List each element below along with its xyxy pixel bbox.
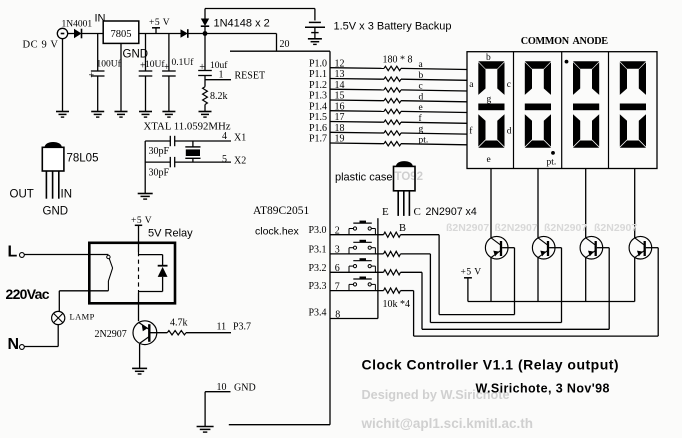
ground C2	[139, 112, 152, 118]
wire P1.4 to resistor	[330, 110, 384, 113]
svg-text:g: g	[487, 95, 492, 105]
label DC 9 V	[23, 40, 59, 51]
segment label c	[507, 80, 511, 90]
svg-text:E: E	[382, 206, 389, 218]
svg-text:GND: GND	[43, 206, 69, 218]
pin number 12	[335, 58, 345, 69]
pin P3.4 stub	[330, 318, 378, 320]
svg-text:0.1Uf: 0.1Uf	[172, 57, 195, 68]
terminal N	[8, 336, 25, 353]
svg-text:10k *4: 10k *4	[383, 299, 411, 310]
svg-text:C: C	[414, 206, 421, 218]
segment label e	[487, 155, 491, 165]
net label f	[419, 113, 423, 124]
label LAMP	[70, 312, 95, 322]
pin P3.4 label	[308, 308, 326, 319]
svg-text:ß2N2907: ß2N2907	[495, 222, 538, 234]
svg-text:RESET: RESET	[235, 71, 266, 82]
wire L to relay contact	[24, 254, 108, 256]
svg-text:P3.4: P3.4	[308, 308, 326, 319]
svg-text:wichit@apl1.sci.kmitl.ac.th: wichit@apl1.sci.kmitl.ac.th	[361, 416, 533, 431]
author W.Sirichote, 3 Nov 98	[476, 382, 610, 396]
regulator U2 7805	[103, 21, 139, 43]
net bus to P3.4	[377, 218, 379, 318]
pin number 17	[335, 112, 345, 123]
connector J1 DC 9V jack	[57, 28, 67, 38]
switch S1	[330, 221, 384, 235]
wire U2 output rail	[139, 33, 181, 35]
wire +5V emitter rail	[468, 301, 635, 303]
svg-text:c: c	[507, 80, 511, 90]
svg-text:5V Relay: 5V Relay	[148, 228, 193, 240]
wire resistor to display segment b	[401, 79, 467, 80]
ground battery	[308, 39, 322, 45]
svg-text:ß2N2907: ß2N2907	[544, 222, 587, 234]
svg-text:1: 1	[219, 70, 224, 81]
svg-text:30pF: 30pF	[149, 146, 170, 157]
wire resistor to display segment f	[401, 122, 467, 123]
resistor RP1.0 180	[384, 66, 401, 70]
svg-text:+5 V: +5 V	[131, 216, 152, 226]
svg-text:100Uf: 100Uf	[97, 59, 122, 70]
net label d	[419, 92, 424, 102]
svg-text:10Uf: 10Uf	[145, 59, 165, 70]
IC U1 AT89C2051 outline	[229, 51, 330, 425]
label 1N4001	[62, 19, 93, 29]
relay snubber diode D4	[139, 255, 168, 292]
pin 5 X2 labels	[222, 154, 246, 167]
display digit 1 segments	[478, 61, 504, 147]
crystal Y1	[185, 141, 200, 162]
svg-text:pt.: pt.	[547, 157, 557, 167]
segment label b	[486, 53, 491, 63]
wire Q5 emitter	[139, 344, 141, 368]
switch S4	[330, 277, 384, 291]
svg-text:P3.2: P3.2	[308, 263, 326, 274]
wire U2 GND lead	[120, 43, 122, 111]
label 1.5V x 3 Battery Backup	[334, 21, 452, 33]
watermark email	[361, 416, 533, 431]
svg-text:1.5V x 3 Battery Backup: 1.5V x 3 Battery Backup	[334, 21, 452, 33]
title Clock Controller	[362, 357, 620, 373]
wire resistor to display segment d	[401, 101, 467, 102]
label 2N2907 x4	[426, 206, 477, 218]
net label e	[419, 103, 423, 113]
wire R1 to ground	[204, 105, 206, 112]
label XTAL 11.0592MHz	[144, 121, 231, 133]
resistor RP1.5 180	[384, 120, 401, 124]
svg-text:g: g	[419, 125, 424, 135]
capacitor C1 100Uf	[89, 34, 122, 112]
pin number 8	[335, 309, 340, 320]
label 1N4148 x 2	[214, 18, 270, 30]
wire P1.1 to resistor	[330, 78, 384, 81]
display digit 2 segments	[525, 61, 551, 147]
pin P1.6 label	[309, 123, 327, 134]
label 2N2907	[95, 329, 127, 340]
svg-text:b: b	[486, 53, 491, 63]
wire Q3 emitter to +5V rail	[585, 258, 587, 302]
wire P1.3 to resistor	[330, 99, 384, 102]
display digit 3 segments	[573, 61, 599, 147]
wire P1.0 to resistor	[330, 67, 384, 70]
pin P1.1 label	[309, 69, 327, 80]
svg-text:d: d	[507, 127, 512, 137]
label GND of 7805	[123, 49, 149, 61]
label 10k *4	[383, 299, 411, 310]
ground C3	[162, 112, 175, 118]
wire resistor to drop 4	[401, 291, 414, 337]
svg-text:P1.6: P1.6	[309, 123, 327, 134]
svg-text:Clock Controller V1.1 (Relay o: Clock Controller V1.1 (Relay output)	[362, 357, 620, 373]
label B	[399, 223, 406, 234]
pin number 6	[335, 263, 340, 274]
wire Q1 emitter to +5V rail	[490, 258, 492, 302]
terminal L	[8, 244, 25, 261]
pin number 16	[335, 101, 345, 112]
svg-text:180 * 8: 180 * 8	[383, 55, 413, 66]
wire Q4 emitter to +5V rail	[634, 258, 636, 302]
resistor R 10k #2	[384, 251, 401, 256]
svg-text:8.2k: 8.2k	[210, 91, 228, 102]
svg-text:IN: IN	[61, 189, 73, 201]
decimal point digit2	[551, 151, 555, 155]
svg-text:X1: X1	[234, 133, 246, 144]
label plastic case	[335, 172, 392, 184]
segment label a	[469, 80, 474, 90]
svg-text:P3.3: P3.3	[308, 281, 326, 292]
segment label pt.	[547, 157, 557, 167]
pin number 18	[335, 123, 345, 134]
watermark 2N2907 #4	[594, 222, 637, 234]
pin P1.5 label	[309, 112, 327, 123]
svg-text:AT89C2051: AT89C2051	[253, 205, 309, 217]
wire contact to lamp branch	[59, 290, 108, 292]
wire VCC to pin 20	[205, 34, 277, 52]
svg-text:d: d	[419, 92, 424, 102]
pin 10 GND stub	[205, 391, 230, 393]
display DS1 outline	[467, 52, 657, 169]
label IN pin	[61, 189, 73, 201]
ground jack	[56, 112, 69, 118]
wire jack to D1	[68, 33, 74, 35]
display digit 4 segments	[620, 61, 646, 147]
pin 11 P3.7 labels	[217, 322, 252, 333]
wire P1.2 to resistor	[330, 88, 384, 91]
pin number 13	[335, 69, 345, 80]
wire jack negative lead	[62, 39, 64, 112]
diode D3 1N4148 from battery	[201, 9, 209, 34]
svg-text:e: e	[487, 155, 491, 165]
svg-text:11: 11	[217, 322, 227, 333]
resistor RP1.3 180	[384, 99, 401, 103]
watermark Designed by W.Sirichote	[362, 388, 510, 402]
resistor RP1.6 180	[384, 131, 401, 135]
svg-text:COMMON ANODE: COMMON ANODE	[521, 36, 608, 47]
wire pin10 to ground	[204, 392, 206, 427]
svg-text:B: B	[399, 223, 406, 234]
battery BT1	[305, 22, 325, 38]
pin P3.1 label	[308, 244, 326, 255]
pin number 14	[335, 80, 345, 91]
net label c	[419, 82, 423, 92]
wire Q5 base	[151, 332, 168, 334]
svg-text:X2: X2	[234, 156, 246, 167]
pin label E	[382, 206, 389, 218]
pin P1.4 label	[309, 101, 327, 112]
svg-text:2N2907 x4: 2N2907 x4	[426, 206, 477, 218]
transistor Q4 2N2907 driver	[629, 236, 652, 259]
wire Q1 base	[439, 248, 514, 315]
svg-text:8: 8	[335, 309, 340, 320]
svg-text:TO92: TO92	[395, 171, 424, 183]
power terminal +5V relay	[131, 216, 152, 243]
svg-text:XTAL 11.0592MHz: XTAL 11.0592MHz	[144, 121, 231, 133]
wire xtal ground rail	[144, 141, 146, 194]
relay K1 box	[89, 243, 175, 303]
diode D2 1N4148 series	[181, 29, 206, 38]
capacitor C4 10uf reset	[198, 34, 228, 87]
svg-text:DC 9 V: DC 9 V	[23, 40, 59, 51]
resistor RP1.2 180	[384, 88, 401, 92]
resistor RP1.1 180	[384, 77, 401, 81]
svg-text:N: N	[8, 336, 20, 353]
wire X1 line	[145, 140, 231, 142]
transistor-package 2N2907 TO92	[394, 161, 416, 216]
svg-text:P1.1: P1.1	[309, 69, 327, 80]
wire relay coil to Q5	[138, 303, 140, 321]
capacitor C2 10Uf	[139, 34, 166, 112]
wire N to lamp	[24, 346, 58, 348]
label 5V Relay	[148, 228, 193, 240]
svg-text:ß2N2907: ß2N2907	[446, 222, 489, 234]
svg-text:P1.0: P1.0	[309, 58, 327, 69]
ground pin10	[197, 427, 214, 433]
ground Q5	[132, 368, 147, 374]
segment label g	[487, 95, 492, 105]
relay coil	[138, 243, 140, 303]
label IN	[95, 13, 106, 25]
label 220Vac	[6, 286, 50, 302]
svg-text:+5 V: +5 V	[149, 18, 170, 28]
resistor RP1.4 180	[384, 109, 401, 113]
svg-text:1N4148 x 2: 1N4148 x 2	[214, 18, 270, 30]
wire resistor to drop 2	[401, 254, 431, 323]
svg-text:78L05: 78L05	[67, 153, 99, 165]
svg-text:P1.3: P1.3	[309, 91, 327, 102]
power terminal +5V drivers	[461, 268, 482, 302]
wire display common 4 to Q4	[634, 169, 636, 238]
svg-text:P1.2: P1.2	[309, 80, 327, 91]
wire X2 line	[145, 161, 231, 163]
transistor-package 78L05 TO92	[42, 142, 64, 199]
lamp LP1	[52, 291, 65, 347]
diode D1 1N4001	[74, 29, 82, 39]
label 78L05	[67, 153, 99, 165]
svg-text:OUT: OUT	[10, 189, 34, 201]
svg-text:LAMP: LAMP	[70, 312, 95, 322]
watermark 2N2907 #1	[446, 222, 489, 234]
svg-text:GND: GND	[123, 49, 149, 61]
pin P3.0 label	[308, 225, 326, 236]
pin number 19	[335, 134, 345, 145]
switch S2	[330, 240, 384, 254]
pin P3.2 label	[308, 263, 326, 274]
svg-text:2N2907: 2N2907	[95, 329, 127, 340]
svg-text:e: e	[419, 103, 423, 113]
pin P1.2 label	[309, 80, 327, 91]
power terminal +5V after 7805	[149, 18, 170, 34]
svg-text:W.Sirichote, 3 Nov'98: W.Sirichote, 3 Nov'98	[476, 382, 610, 396]
segment label d	[507, 127, 512, 137]
node VCC junction	[203, 31, 208, 36]
pin 10 GND labels	[217, 382, 256, 393]
net label b	[419, 71, 424, 81]
pin P1.0 label	[309, 58, 327, 69]
ground 7805	[115, 112, 128, 118]
svg-text:GND: GND	[234, 382, 256, 393]
svg-text:30pF: 30pF	[149, 167, 170, 178]
wire resistor to display segment e	[401, 111, 467, 112]
resistor R 10k #4	[384, 288, 401, 293]
svg-text:plastic case: plastic case	[335, 172, 392, 184]
label GND pin	[43, 206, 69, 218]
relay contact switch	[107, 255, 113, 290]
pin P1.3 label	[309, 91, 327, 102]
watermark 2N2907 #3	[544, 222, 587, 234]
wire display common 3 to Q3	[585, 169, 587, 238]
ground R1	[199, 112, 212, 118]
wire display common 1 to Q1	[490, 169, 492, 238]
label 180 * 8	[383, 55, 413, 66]
svg-text:ß2N2907: ß2N2907	[594, 222, 637, 234]
resistor RP1.7 180	[384, 142, 401, 146]
pin number 15	[335, 91, 345, 102]
svg-text:4.7k: 4.7k	[170, 318, 188, 329]
label OUT	[10, 189, 34, 201]
net label a	[419, 60, 424, 70]
wire resistor to display segment g	[401, 133, 467, 134]
pin P1.7 label	[309, 134, 327, 145]
label clock.hex	[255, 226, 300, 238]
ground C1	[91, 112, 104, 118]
wire Q2 emitter to +5V rail	[537, 258, 539, 302]
pin 1 RESET labels	[219, 70, 266, 82]
segment label f	[469, 126, 473, 137]
wire resistor to drop 1	[401, 235, 440, 315]
svg-text:+: +	[89, 71, 95, 82]
svg-text:P1.5: P1.5	[309, 112, 327, 123]
wire Q2 base	[430, 248, 561, 323]
svg-text:P1.4: P1.4	[309, 101, 327, 112]
net label g	[419, 125, 424, 135]
resistor R 10k #3	[384, 270, 401, 275]
node RESET	[205, 79, 231, 81]
net label pt.	[419, 135, 429, 145]
svg-text:b: b	[419, 71, 424, 81]
wire P1.7 to resistor	[330, 142, 384, 145]
pin number 3	[335, 245, 340, 256]
resistor R2 4.7k	[167, 318, 187, 335]
pin number 7	[335, 281, 340, 292]
label COMMON ANODE	[521, 36, 608, 47]
switch S3	[330, 258, 384, 272]
transistor Q2 2N2907 driver	[532, 236, 555, 259]
wire D1 to U2 input	[82, 33, 104, 35]
pin 4 X1 labels	[222, 131, 246, 144]
pin 20 label	[280, 39, 290, 50]
svg-text:+: +	[199, 62, 205, 73]
pin number 2	[335, 226, 340, 237]
capacitor C6 30pF	[149, 157, 175, 178]
wire R2 to P3.7	[186, 332, 231, 334]
svg-text:+: +	[164, 62, 170, 73]
svg-text:P3.1: P3.1	[308, 244, 326, 255]
svg-text:L: L	[8, 244, 18, 261]
svg-text:10: 10	[217, 382, 227, 393]
watermark 2N2907 #2	[495, 222, 538, 234]
wire battery top rail	[205, 9, 315, 21]
wire resistor to display segment pt.	[401, 144, 467, 145]
wire Q4 base	[414, 248, 659, 336]
svg-text:clock.hex: clock.hex	[255, 226, 300, 238]
svg-text:4: 4	[222, 131, 227, 142]
svg-text:1N4001: 1N4001	[62, 19, 93, 29]
capacitor C5 30pF	[149, 136, 175, 157]
transistor Q1 2N2907 driver	[485, 236, 508, 259]
wire resistor to drop 3	[401, 272, 423, 329]
wire resistor to display segment a	[401, 68, 467, 69]
wire Q3 base	[422, 248, 609, 330]
label AT89C2051	[253, 205, 309, 217]
resistor R1 8.2k	[203, 87, 228, 105]
svg-text:c: c	[419, 82, 423, 92]
wire display common 2 to Q2	[537, 169, 539, 238]
svg-text:P3.0: P3.0	[308, 225, 326, 236]
pin P3.3 label	[308, 281, 326, 292]
svg-text:20: 20	[280, 39, 290, 50]
transistor Q5 2N2907	[133, 321, 157, 345]
svg-text:P1.7: P1.7	[309, 134, 327, 145]
svg-text:+5 V: +5 V	[461, 268, 482, 278]
resistor R 10k #1	[384, 232, 401, 237]
wire resistor to display segment c	[401, 90, 467, 91]
wire P1.5 to resistor	[330, 121, 384, 124]
svg-text:7805: 7805	[111, 29, 132, 40]
pin label C	[414, 206, 421, 218]
svg-text:220Vac: 220Vac	[6, 286, 50, 302]
svg-text:P3.7: P3.7	[233, 322, 251, 333]
ground xtal	[138, 194, 153, 200]
svg-text:5: 5	[222, 154, 227, 165]
wire P1.6 to resistor	[330, 131, 384, 134]
decimal point digit3	[565, 60, 569, 64]
svg-text:pt.: pt.	[419, 135, 429, 145]
transistor Q3 2N2907 driver	[580, 236, 603, 259]
watermark TO92	[395, 171, 424, 183]
capacitor C3 0.1Uf	[162, 34, 194, 112]
